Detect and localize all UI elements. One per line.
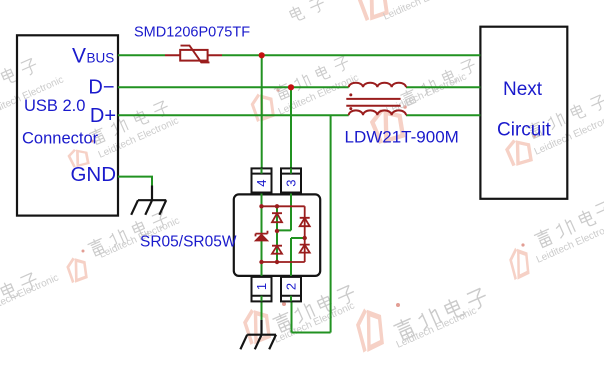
svg-text:Next: Next	[503, 79, 543, 100]
svg-text:Circuit: Circuit	[497, 119, 552, 140]
svg-text:BUS: BUS	[87, 51, 115, 66]
svg-text:4: 4	[254, 180, 269, 187]
svg-text:3: 3	[284, 180, 299, 187]
svg-text:Connector: Connector	[22, 130, 99, 148]
svg-text:D−: D−	[88, 77, 114, 99]
svg-text:SR05/SR05W: SR05/SR05W	[140, 234, 237, 251]
svg-text:SMD1206P075TF: SMD1206P075TF	[134, 25, 250, 41]
svg-text:GND: GND	[70, 163, 116, 186]
svg-text:D+: D+	[90, 105, 116, 127]
svg-text:USB 2.0: USB 2.0	[24, 97, 85, 115]
svg-text:2: 2	[284, 283, 299, 290]
svg-text:V: V	[72, 45, 86, 68]
svg-text:LDW21T-900M: LDW21T-900M	[345, 128, 459, 147]
svg-text:1: 1	[254, 283, 269, 290]
